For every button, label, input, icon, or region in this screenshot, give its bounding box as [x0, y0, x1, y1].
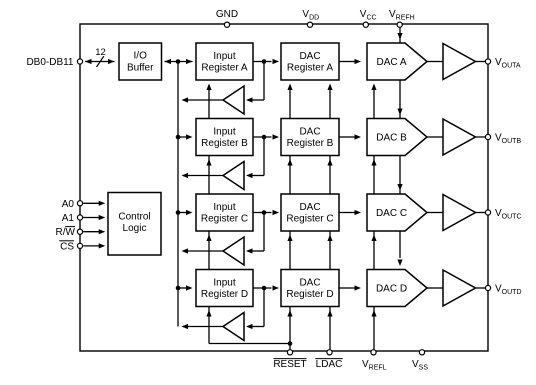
arrowhead VREFL into DAC A: [371, 84, 376, 91]
wire DAC Register B to DAC B: [339, 136, 355, 138]
junction RESET line: [288, 341, 293, 346]
svg-text:VREFH: VREFH: [389, 9, 415, 22]
outer boundary: [80, 24, 488, 351]
arrowhead into readback buffer B: [246, 173, 253, 178]
wire DB0-DB11 pin to I/O Buffer (bidirectional): [85, 61, 115, 63]
arrowhead RESET into DAC Register C: [287, 235, 292, 242]
pin VSS: [419, 350, 424, 355]
wire Input Register C output down to readback buffer C: [263, 213, 265, 252]
wire data bus vertical: [177, 62, 179, 327]
svg-text:CS: CS: [60, 241, 74, 252]
wire DAC A to amplifier A: [427, 61, 443, 63]
wire CS to Control Logic: [83, 245, 99, 247]
svg-text:VSS: VSS: [412, 359, 428, 372]
pin VOUTD: [485, 285, 490, 290]
pin A1: [77, 215, 82, 220]
svg-text:VOUTD: VOUTD: [495, 284, 522, 297]
dac DAC A: [367, 43, 427, 80]
junction bus row A: [176, 59, 181, 64]
wire Input Register B to DAC Register B: [253, 136, 272, 138]
svg-text:Register D: Register D: [286, 289, 333, 300]
junction Input Register D output: [262, 286, 267, 291]
block Input Register C: [196, 194, 253, 231]
arrowhead into DAC Register B: [273, 134, 280, 139]
svg-text:GND: GND: [216, 9, 238, 20]
svg-text:VCC: VCC: [360, 9, 377, 22]
bus width slash: [97, 56, 104, 67]
wire readback buffer C output to bus: [185, 250, 223, 252]
arrowhead into readback buffer A: [246, 97, 253, 102]
arrowhead VREFH into DAC C: [397, 184, 402, 191]
op-amp B: [443, 119, 476, 155]
wire amplifier A to VOUTA pin: [476, 61, 486, 63]
wire readback buffer A output to bus: [185, 99, 223, 101]
arrowhead RESET into DAC Register A: [287, 84, 292, 91]
svg-text:Input: Input: [213, 51, 235, 62]
wire amplifier D to VOUTD pin: [476, 287, 486, 289]
svg-text:Input: Input: [213, 202, 235, 213]
arrowhead A1 into Control Logic: [99, 215, 106, 220]
wire amplifier C to VOUTC pin: [476, 212, 486, 214]
svg-text:VOUTB: VOUTB: [495, 133, 521, 146]
svg-text:DB0-DB11: DB0-DB11: [26, 57, 73, 68]
wire A0 to Control Logic: [83, 202, 99, 204]
wire amplifier B to VOUTB pin: [476, 136, 486, 138]
pin VREFL: [371, 350, 376, 355]
svg-text:Input: Input: [213, 126, 235, 137]
arrowhead LDAC into DAC Register D: [327, 310, 332, 317]
wire DAC Register D to DAC D: [339, 287, 355, 289]
wire readback buffer D output to bus: [185, 326, 223, 328]
arrowhead into DAC Register A: [273, 59, 280, 64]
block DAC Register D: [281, 270, 339, 307]
wire I/O Buffer to Input Register A (bidirectional): [165, 61, 193, 63]
block Input Register B: [196, 119, 253, 156]
junction bus row B: [176, 135, 181, 140]
dac DAC B: [367, 119, 427, 156]
svg-text:Buffer: Buffer: [127, 62, 154, 73]
wire RESET pin stub: [289, 344, 291, 350]
wire VREFH to DACs: [399, 28, 401, 258]
svg-text:VOUTC: VOUTC: [495, 208, 522, 221]
junction Input Register C output: [262, 210, 267, 215]
arrowhead CS into Control Logic: [99, 243, 106, 248]
arrowhead into DAC A: [355, 59, 362, 64]
svg-text:DAC: DAC: [299, 126, 320, 137]
arrowheads DB bus bidirectional: [85, 59, 92, 64]
pin LDAC: [327, 350, 332, 355]
readback buffer amp B: [223, 162, 244, 190]
junction Input Register A output: [262, 59, 267, 64]
pin DB0-DB11: [77, 59, 82, 64]
arrowhead VREFL into DAC D: [371, 310, 376, 317]
wire bus branch to Input Register D: [178, 287, 187, 289]
wire DAC B to amplifier B: [427, 136, 443, 138]
wire bus branch to Input Register B: [178, 136, 187, 138]
wire Input Register D to DAC Register D: [253, 287, 272, 289]
svg-text:DAC C: DAC C: [376, 208, 407, 219]
svg-text:A0: A0: [62, 199, 75, 210]
arrowhead readback buffer B to bus: [182, 173, 189, 178]
svg-text:VOUTA: VOUTA: [495, 57, 521, 70]
wire DAC Register C to DAC C: [339, 212, 355, 214]
block DAC Register C: [281, 194, 339, 231]
arrowhead into Input Register C: [186, 210, 193, 215]
junction Input Register B output: [262, 135, 267, 140]
arrowhead into DAC Register C: [273, 210, 280, 215]
pin VOUTC: [485, 210, 490, 215]
arrowhead VREFL into DAC B: [371, 159, 376, 166]
pin A0: [77, 201, 82, 206]
op-amp A: [443, 44, 476, 80]
dac DAC C: [367, 194, 427, 231]
block DAC Register A: [281, 43, 339, 80]
arrowhead LDAC into DAC Register B: [327, 159, 332, 166]
svg-text:VDD: VDD: [302, 9, 319, 22]
arrowhead readback buffer D to bus: [182, 324, 189, 329]
arrowhead VREFH into DAC B: [397, 109, 402, 116]
arrowhead into readback buffer D: [246, 324, 253, 329]
svg-text:DAC D: DAC D: [376, 284, 407, 295]
svg-text:DAC: DAC: [299, 202, 320, 213]
junction bus row D: [176, 286, 181, 291]
arrowhead readback buffer C to bus: [182, 248, 189, 253]
pin VOUTB: [485, 134, 490, 139]
wire Input Register B output down to readback buffer B: [263, 137, 265, 176]
readback buffer amp A: [223, 86, 244, 114]
wire DAC C to amplifier C: [427, 212, 443, 214]
arrowhead VREFH into DAC D: [397, 260, 402, 267]
svg-text:Input: Input: [213, 277, 235, 288]
wire DAC D to amplifier D: [427, 287, 443, 289]
pin GND: [224, 22, 229, 27]
wire A1 to Control Logic: [83, 217, 99, 219]
arrowhead A0 into Control Logic: [99, 201, 106, 206]
svg-text:Register A: Register A: [287, 62, 333, 73]
dac DAC D: [367, 270, 427, 307]
arrowhead R/W into Control Logic: [99, 229, 106, 234]
pin VREFH: [397, 22, 402, 27]
arrowhead RESET into DAC Register D: [287, 310, 292, 317]
svg-text:Control: Control: [118, 211, 150, 222]
svg-text:A1: A1: [62, 213, 75, 224]
svg-text:DAC A: DAC A: [376, 57, 406, 68]
arrowhead VREFL into DAC C: [371, 235, 376, 242]
arrowhead VREFH into DAC A: [397, 33, 402, 40]
wire readback buffer B output to bus: [185, 175, 223, 177]
arrowhead into readback buffer C: [246, 248, 253, 253]
wire VREFL to DACs: [373, 86, 375, 349]
wire Input Register C to DAC Register C: [253, 212, 272, 214]
pin R/W: [77, 229, 82, 234]
readback buffer amp C: [223, 237, 244, 265]
wire bus branch to Input Register C: [178, 212, 187, 214]
pin RESET: [287, 350, 292, 355]
junction bus row C: [176, 210, 181, 215]
svg-text:LDAC: LDAC: [316, 359, 343, 370]
wire R/W to Control Logic: [83, 231, 99, 233]
svg-text:DAC B: DAC B: [376, 133, 407, 144]
svg-text:Register B: Register B: [201, 138, 248, 149]
wire RESET bottom horizontal: [209, 343, 290, 345]
arrowhead LDAC into DAC Register C: [327, 235, 332, 242]
pin VOUTA: [485, 59, 490, 64]
svg-text:DAC: DAC: [299, 51, 320, 62]
svg-text:RESET: RESET: [273, 359, 306, 370]
wire RESET to DAC registers: [289, 86, 291, 344]
arrowhead RESET into Input Register C: [206, 235, 211, 242]
arrowhead into Input Register D: [186, 285, 193, 290]
arrowhead into DAC B: [355, 134, 362, 139]
svg-text:I/O: I/O: [134, 51, 148, 62]
pin VCC: [363, 22, 368, 27]
arrowhead LDAC into DAC Register A: [327, 84, 332, 91]
svg-text:Logic: Logic: [123, 223, 147, 234]
svg-text:Register D: Register D: [201, 289, 248, 300]
op-amp D: [443, 270, 476, 306]
arrowhead into DAC C: [355, 210, 362, 215]
arrowhead into DAC Register D: [273, 285, 280, 290]
pin CS: [77, 243, 82, 248]
block Input Register D: [196, 270, 253, 307]
wire RESET to input registers: [208, 86, 210, 344]
arrowhead RESET into DAC Register B: [287, 159, 292, 166]
wire Input Register A to DAC Register A: [253, 61, 272, 63]
svg-text:12: 12: [95, 47, 106, 58]
op-amp C: [443, 195, 476, 231]
readback buffer amp D: [223, 313, 244, 341]
wire Input Register A output down to readback buffer A: [263, 62, 265, 101]
svg-text:VREFL: VREFL: [362, 359, 387, 372]
arrowhead into Input Register B: [186, 134, 193, 139]
block Control Logic: [108, 193, 161, 256]
svg-text:Register C: Register C: [201, 213, 248, 224]
block Input Register A: [196, 43, 253, 80]
svg-text:Register C: Register C: [286, 213, 333, 224]
svg-text:R/W: R/W: [56, 227, 76, 238]
pin VDD: [307, 22, 312, 27]
svg-text:Register A: Register A: [201, 62, 247, 73]
arrowhead RESET into Input Register B: [206, 159, 211, 166]
arrowhead RESET into Input Register D: [206, 310, 211, 317]
arrowhead into DAC D: [355, 285, 362, 290]
arrowhead readback buffer A to bus: [182, 97, 189, 102]
wire Input Register D output down to readback buffer D: [263, 288, 265, 327]
block DAC Register B: [281, 119, 339, 156]
wire DAC Register A to DAC A: [339, 61, 355, 63]
svg-text:DAC: DAC: [299, 277, 320, 288]
wire LDAC to DAC registers: [329, 86, 331, 349]
svg-text:Register B: Register B: [287, 138, 334, 149]
arrowhead RESET into Input Register A: [206, 84, 211, 91]
block I/O Buffer: [119, 43, 162, 80]
